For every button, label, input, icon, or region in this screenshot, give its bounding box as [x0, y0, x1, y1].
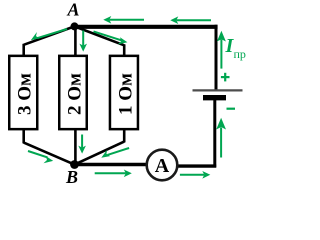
current arrow: down arrow on middle branch at B — [78, 135, 86, 154]
wire: lower right vertical wire from battery - plate down to bottom corner — [213, 100, 216, 167]
wire: bottom wire from corner to ammeter right terminal — [177, 164, 217, 167]
current arrow: down arrow on middle branch at A — [79, 31, 87, 52]
resistor R1: 3 Ohm box — [9, 56, 37, 129]
ammeter U1: letter A — [155, 155, 170, 177]
wire: middle stub from resistor R2 bottom to node B — [74, 129, 77, 165]
current arrow: left arrow on top wire — [103, 16, 144, 24]
resistor R2: 2 Ohm box — [59, 56, 87, 129]
wire: from node B to ammeter left terminal — [75, 163, 148, 167]
ammeter U1: circle body — [147, 150, 178, 181]
node B: junction dot — [70, 160, 79, 169]
wire: top wire from node A to top-right corner — [73, 25, 218, 29]
current arrow: second left arrow on top wire — [170, 16, 211, 24]
wire: stub from resistor R1 bottom — [22, 129, 25, 143]
current arrow: down-left arrow on branch R3 to B — [101, 148, 129, 158]
current arrow: down-left arrow on branch A to R1 — [31, 29, 67, 40]
svg-text:1 Ом: 1 Ом — [116, 73, 137, 115]
wire: stub down to resistor R3 top — [123, 44, 126, 56]
label: current I_pr — [225, 35, 246, 61]
label: plus polarity sign — [221, 73, 230, 82]
current arrow: down-right arrow on branch R1 to B — [28, 151, 53, 163]
resistor R3: 1 Ohm box — [110, 56, 138, 129]
node A: label A — [66, 0, 79, 19]
node B: label B — [65, 167, 78, 187]
current arrow: right arrow under wire B to ammeter — [95, 170, 132, 178]
label: minus polarity sign — [227, 108, 236, 110]
battery GB: short thick negative plate — [203, 95, 226, 100]
svg-text:B: B — [65, 167, 78, 186]
battery GB: long thin positive plate — [193, 89, 243, 91]
svg-text:A: A — [66, 0, 79, 19]
current arrow: right arrow under bottom wire right of ammeter — [180, 171, 210, 179]
wire: middle stub from node A down to resistor R2 top — [74, 26, 77, 56]
svg-text:A: A — [155, 155, 170, 177]
wire: stub from resistor R3 bottom — [123, 129, 126, 142]
current arrow: down-right arrow on branch A to R3 — [94, 31, 128, 44]
current arrow: up arrow for I_pr beside right wire — [217, 31, 226, 69]
wire: branch from node A to resistor R1 stub — [24, 26, 75, 44]
wire: stub down to resistor R1 top — [22, 44, 25, 56]
node A: junction dot — [71, 22, 79, 30]
svg-text:3 Ом: 3 Ом — [15, 73, 36, 115]
wire: branch from R1 stub to node B — [24, 143, 75, 165]
wire: right vertical wire from top corner down to battery + plate — [215, 25, 218, 90]
wire: branch from R3 stub to node B — [75, 142, 125, 165]
svg-text:пр: пр — [234, 47, 246, 61]
current arrow: up arrow on lower right vertical wire — [216, 118, 226, 158]
svg-text:2 Ом: 2 Ом — [65, 73, 86, 115]
wire: branch from node A to resistor R3 stub — [75, 26, 125, 45]
